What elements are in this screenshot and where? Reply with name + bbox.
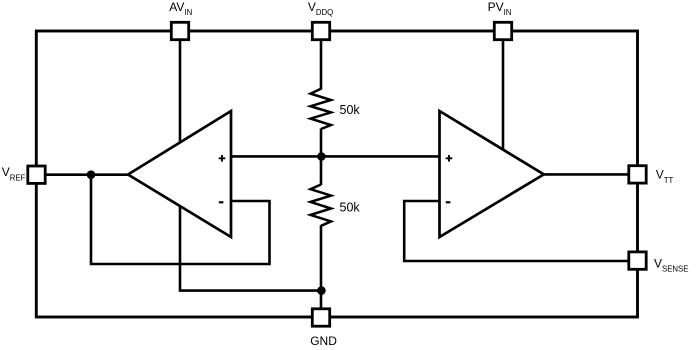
U1 - input mark (219, 201, 224, 203)
resistor R2 50k (311, 185, 332, 226)
pin VSENSE (629, 252, 646, 269)
wire R2 down to GND pin (320, 225, 323, 309)
wire VREF pin to U1 output apex (46, 173, 129, 176)
wire U2 output to VTT pin (544, 173, 629, 176)
wire center rail U1 + input to U2 + input (231, 155, 440, 158)
svg-text:50k: 50k (340, 201, 361, 215)
wire VDDQ stub down to R1 (320, 40, 323, 90)
node center tap junction (317, 152, 326, 161)
op-amp U1 (left, VREF buffer) (128, 111, 231, 237)
wire U1 feedback loop to - input (91, 175, 270, 264)
pin AV_IN (171, 22, 188, 39)
svg-text:VDDQ: VDDQ (308, 0, 333, 17)
pin GND (312, 309, 329, 326)
svg-text:PVIN: PVIN (488, 0, 512, 17)
svg-text:GND: GND (310, 334, 337, 348)
svg-text:VSENSE: VSENSE (654, 256, 688, 273)
svg-text:50k: 50k (340, 103, 361, 117)
IC boundary box (36, 31, 637, 317)
svg-text:AVIN: AVIN (169, 0, 192, 17)
pin VREF (28, 166, 45, 183)
wire U2 feedback from VSENSE to - input (404, 201, 628, 261)
wire R1 to R2 through center tap (320, 129, 323, 186)
pin VTT (629, 166, 646, 183)
node VREF junction (87, 170, 96, 179)
U2 - input mark (446, 201, 451, 203)
op-amp U2 (right, VTT output) (440, 111, 544, 237)
wire AV_IN stub down and right to GND node (180, 40, 321, 291)
pin PV_IN (494, 22, 511, 39)
U2 + input mark (446, 155, 453, 162)
U1 + input mark (219, 155, 226, 162)
svg-text:VREF: VREF (2, 165, 26, 182)
svg-text:VTT: VTT (656, 168, 674, 185)
wire PV_IN stub down to U2 (502, 40, 505, 150)
node GND junction (317, 286, 326, 295)
pin VDDQ (312, 22, 329, 39)
resistor R1 50k (311, 89, 332, 129)
